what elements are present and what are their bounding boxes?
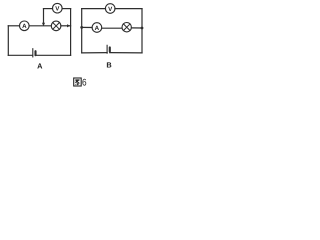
battery B1 short thick plate (left circuit) [34,51,36,55]
junction dot left (right circuit) [80,26,83,29]
right circuit outer rectangle left edge [81,9,83,53]
svg-text:A: A [95,25,100,32]
battery B2 short thick plate (right circuit) [109,47,111,51]
wire: left circuit bottom left segment [8,54,32,56]
battery B2 long plate (right circuit) [106,45,108,53]
lamp L2 circle (right circuit) [122,23,131,32]
svg-text:B: B [106,61,111,70]
lamp L1 circle (left circuit) [51,21,61,31]
svg-text:A: A [22,23,27,30]
voltmeter V1 circle (left circuit) [53,3,63,13]
right circuit main wire left edge to ammeter [82,26,92,28]
junction dot right (right circuit) [141,27,144,30]
svg-text:A: A [37,61,43,70]
voltmeter V2 circle (right circuit) [105,4,115,14]
right circuit top wire right of voltmeter [115,8,142,10]
right circuit main wire ammeter to lamp [102,27,122,29]
wire: left circuit main wire from left edge to ammeter [8,25,19,27]
wire: left circuit main wire lamp to right edge [61,25,71,27]
wire: voltmeter branch right horizontal [62,8,71,10]
caption figure 6 character tu (drawn) [74,78,82,86]
lamp L2 cross [123,24,130,31]
right circuit bottom wire right segment [110,52,142,54]
arrow head right on left circuit main wire at right junction [67,24,70,27]
wire: left circuit bottom right segment [35,54,70,56]
right circuit top wire left of voltmeter [82,8,106,10]
arrow head down at voltmeter branch junction [42,23,45,26]
wire: left circuit main wire ammeter to lamp [29,25,51,27]
ammeter A1 circle (left circuit) [20,21,30,31]
right circuit main wire lamp to right edge [131,27,142,29]
svg-text:6: 6 [82,78,87,89]
right circuit right edge [141,9,143,53]
battery B1 long plate (left circuit) [32,49,34,57]
wire: left circuit right edge [70,9,72,56]
ammeter A2 circle (right circuit) [92,23,102,33]
lamp L1 cross [53,23,60,30]
wire: voltmeter branch left vertical with arrow [43,9,45,25]
right circuit bottom wire left segment [82,52,107,54]
wire: voltmeter branch left horizontal [44,8,53,10]
wire: left circuit left edge [7,26,9,56]
